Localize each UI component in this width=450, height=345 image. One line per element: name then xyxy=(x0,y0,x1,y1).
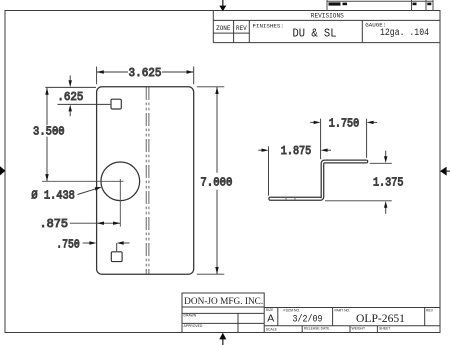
svg-text:Ø 1.438: Ø 1.438 xyxy=(31,189,75,203)
svg-text:3.500: 3.500 xyxy=(33,125,65,139)
circle hole xyxy=(101,162,140,201)
revisions table lines xyxy=(213,11,440,43)
svg-text:SIZE: SIZE xyxy=(266,308,274,312)
svg-text:A: A xyxy=(267,314,274,325)
dimension 1.375 (offset height) xyxy=(325,151,392,214)
dimension .750 (bottom hole offset) xyxy=(83,243,130,251)
centering mark left xyxy=(0,166,5,175)
dimension 1.875 (bottom flange) xyxy=(258,119,331,196)
dimension 1.750 (top flange) xyxy=(310,119,377,158)
svg-text:1.375: 1.375 xyxy=(373,175,404,189)
svg-text:ZONE: ZONE xyxy=(216,25,231,32)
z-profile left end cap xyxy=(269,197,270,200)
svg-text:.750: .750 xyxy=(56,238,80,252)
svg-text:WEIGHT: WEIGHT xyxy=(352,327,366,331)
circle centerline vertical xyxy=(119,179,121,227)
svg-text:FSCM NO.: FSCM NO. xyxy=(284,308,301,312)
svg-text:SHEET: SHEET xyxy=(379,327,390,331)
svg-text:PART NO.: PART NO. xyxy=(335,308,351,312)
circle centerline horizontal xyxy=(42,180,123,182)
svg-text:APPROVED: APPROVED xyxy=(184,324,203,328)
svg-text:3/2/09: 3/2/09 xyxy=(293,314,323,326)
svg-text:OLP-2651: OLP-2651 xyxy=(356,312,405,325)
plate outline xyxy=(97,87,194,274)
svg-text:7.000: 7.000 xyxy=(200,176,232,190)
svg-text:RELEASE DATE: RELEASE DATE xyxy=(304,327,330,331)
svg-text:DU & SL: DU & SL xyxy=(293,27,337,41)
z-profile inner surface xyxy=(270,163,366,200)
svg-text:1.875: 1.875 xyxy=(281,144,312,158)
svg-text:SCALE: SCALE xyxy=(266,328,278,332)
dimension 7.000 (right height) xyxy=(197,87,225,274)
dimension .875 (circle horizontal offset) xyxy=(70,222,121,224)
svg-text:1.750: 1.750 xyxy=(329,117,360,131)
svg-text:DON-JO MFG. INC.: DON-JO MFG. INC. xyxy=(184,297,263,307)
svg-text:REV: REV xyxy=(426,308,434,312)
centering mark bottom xyxy=(219,333,226,345)
dimension 3.625 (top width) xyxy=(97,67,194,85)
svg-text:.875: .875 xyxy=(40,217,69,231)
svg-text:REVISIONS: REVISIONS xyxy=(311,13,344,20)
title block: company box xyxy=(182,293,440,333)
cut-off table at top edge xyxy=(327,0,433,11)
svg-text:.625: .625 xyxy=(57,90,83,104)
top square hole xyxy=(111,99,121,109)
bend lines (phantom) xyxy=(146,87,149,274)
flange tick marks xyxy=(286,197,295,200)
svg-text:REV: REV xyxy=(236,25,247,32)
centering mark right xyxy=(440,167,450,176)
centering mark top xyxy=(219,0,226,11)
bottom square hole xyxy=(111,252,122,262)
svg-text:FINISHES:: FINISHES: xyxy=(253,23,284,30)
z-profile outer surface xyxy=(270,160,366,198)
dimension 3.500 (circle vertical offset) xyxy=(46,88,48,181)
dimension .625 (top hole offset) xyxy=(45,75,110,116)
cut-off table text smudges xyxy=(329,2,432,5)
svg-text:DRAWN: DRAWN xyxy=(184,314,197,318)
revisions table text xyxy=(216,13,429,41)
leader Ø 1.438 (circle diameter) xyxy=(78,189,97,195)
svg-text:3.625: 3.625 xyxy=(129,66,162,80)
z-profile right end cap xyxy=(366,160,367,163)
svg-text:12ga. .104: 12ga. .104 xyxy=(380,28,429,39)
title block text xyxy=(184,297,434,332)
